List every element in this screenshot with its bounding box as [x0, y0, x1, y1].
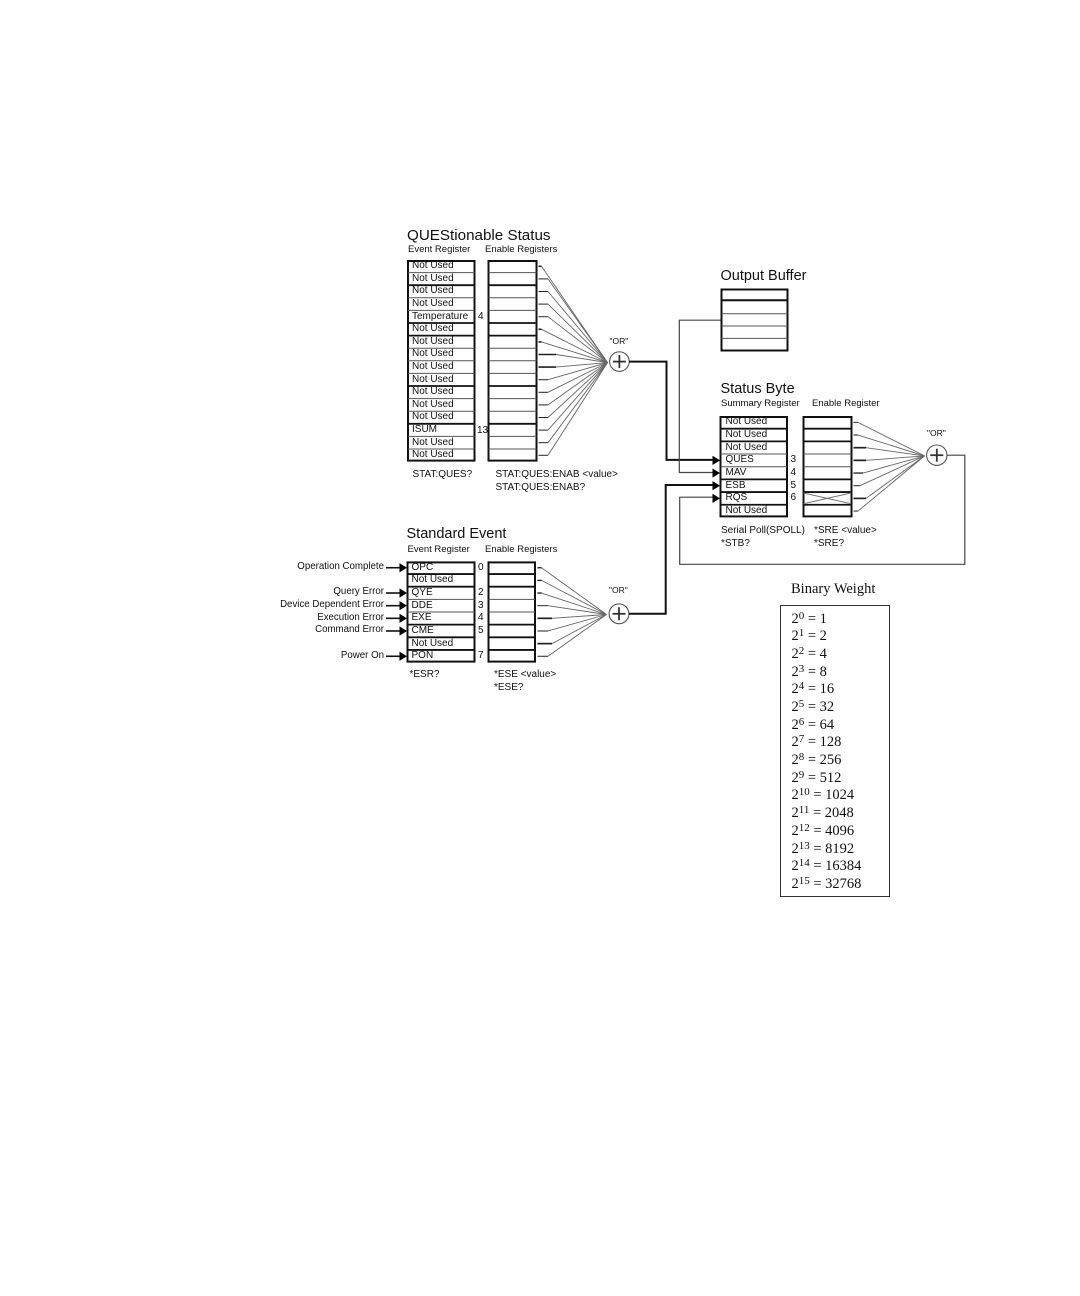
- command label *ESR?: [410, 669, 440, 681]
- input label: Operation Complete: [184, 561, 384, 573]
- arrowhead into Operation Complete bit: [400, 563, 408, 572]
- wire: fan-in line to OR: [548, 363, 608, 431]
- QUEStionable event register grid: [407, 261, 476, 461]
- bit number 4 (Temperature): [478, 311, 484, 323]
- input label: Command Error: [184, 624, 384, 636]
- bit number 7 (Standard Event): [478, 650, 484, 662]
- wire: fan-in line to OR: [548, 292, 608, 363]
- wire: Execution Error input line: [386, 617, 400, 619]
- OR gate (Standard Event): circle with plus: [609, 604, 629, 624]
- wire: fan-in line to OR: [542, 580, 607, 614]
- cell label: QUES event register Not Used: [412, 437, 454, 449]
- input label: Query Error: [184, 586, 384, 598]
- wire: Output Buffer to Status Byte MAV bit: [679, 320, 720, 472]
- wire: fan-in line to OR: [548, 606, 607, 615]
- cell label: QUES event register Not Used: [412, 361, 454, 373]
- wire: enable bit output stub: [539, 291, 549, 293]
- command label *ESE?: [494, 682, 523, 694]
- wire: enable bit output stub: [854, 459, 867, 461]
- cell label: Status Byte summary register Not Used: [726, 429, 768, 441]
- wire: fan-in line to OR: [863, 456, 925, 473]
- cell label: Standard Event event register EXE: [412, 612, 432, 624]
- command label *STB?: [721, 538, 750, 550]
- column header: Enable Register (Status Byte): [812, 398, 880, 410]
- cell label: QUES event register Not Used: [412, 260, 454, 272]
- wire: fan-in line to OR: [548, 304, 608, 363]
- wire: fan-in line to OR: [866, 456, 925, 460]
- wire: enable bit output stub: [539, 454, 549, 456]
- Binary Weight box: [780, 605, 890, 897]
- wire: fan-in line to OR: [542, 342, 608, 363]
- OR gate (QUEStionable): circle with plus: [610, 352, 630, 372]
- Status Byte summary register grid: [720, 417, 789, 516]
- bit number 4 (Standard Event): [478, 612, 484, 624]
- arrowhead into RQS bit: [713, 494, 721, 503]
- wire: enable bit output stub: [854, 434, 859, 436]
- cell label: Status Byte summary register RQS: [726, 492, 748, 504]
- column header: Enable Registers (QUES): [485, 244, 557, 256]
- wire: fan-in line to OR: [548, 615, 607, 631]
- wire: Power On input line: [386, 655, 400, 657]
- section title: Binary Weight (serif): [791, 581, 875, 599]
- Standard Event enable register grid: [488, 562, 537, 661]
- wire: fan-in line to OR: [548, 363, 608, 393]
- arrowhead into Power On bit: [400, 652, 408, 661]
- wire: fan-in line to OR: [552, 615, 607, 644]
- wire: fan-in line to OR: [858, 422, 925, 456]
- section title: Standard Event: [407, 526, 507, 544]
- command label *SRE <value>: [814, 525, 877, 537]
- wire: fan-in line to OR: [866, 448, 925, 456]
- column header: Summary Register: [721, 398, 800, 410]
- cell label: Standard Event event register Not Used: [412, 574, 454, 586]
- cell label: QUES event register Temperature: [412, 311, 468, 323]
- cell label: Standard Event event register CME: [412, 625, 434, 637]
- wire: fan-in line to OR: [556, 363, 608, 368]
- wire: enable bit output stub: [539, 303, 549, 305]
- cell label: Standard Event event register OPC: [412, 562, 434, 574]
- wire: enable bit output stub: [538, 579, 542, 581]
- wire: fan-in line to OR: [542, 329, 608, 362]
- wire: fan-in line to OR: [548, 363, 608, 456]
- label "OR" (QUEStionable): [610, 336, 629, 346]
- wire: enable bit output stub: [538, 592, 542, 594]
- bit number 2 (Standard Event): [478, 587, 484, 599]
- cell label: QUES event register Not Used: [412, 399, 454, 411]
- wire: Standard Event OR output to Status Byte ESB bit: [629, 485, 713, 614]
- wire: enable bit output stub: [539, 404, 549, 406]
- bit number 0 (Standard Event): [478, 562, 484, 574]
- cell label: QUES event register Not Used: [412, 323, 454, 335]
- Binary Weight table text 2^0..2^15: [792, 611, 862, 894]
- label "OR" (Status Byte): [927, 428, 946, 438]
- wire: enable bit output stub: [539, 417, 549, 419]
- cell label: QUES event register Not Used: [412, 298, 454, 310]
- wire: fan-in line to OR: [556, 355, 608, 363]
- command label *SRE?: [814, 538, 844, 550]
- section title: QUEStionable Status: [407, 227, 551, 246]
- cell label: QUES event register Not Used: [412, 386, 454, 398]
- command label *ESE <value>: [494, 669, 556, 681]
- wire: fan-in line to OR: [858, 456, 925, 511]
- wire: enable bit output stub: [539, 328, 542, 330]
- command label STAT:QUES:ENAB?: [496, 482, 586, 494]
- wire: enable bit output stub: [854, 472, 864, 474]
- arrowhead into Query Error bit: [400, 588, 408, 597]
- cell label: Status Byte summary register QUES: [726, 454, 754, 466]
- wire: fan-in line to OR: [548, 363, 608, 443]
- OR gate (Status Byte): circle with plus: [927, 445, 947, 465]
- cell label: Standard Event event register PON: [412, 650, 434, 662]
- wire: enable bit output stub: [539, 429, 549, 431]
- bit number 3 (Standard Event): [478, 600, 484, 612]
- bit number 4 (Status Byte): [791, 467, 797, 479]
- input label: Power On: [184, 650, 384, 662]
- command label STAT:QUES:ENAB <value>: [496, 469, 618, 481]
- wire: enable bit output stub: [538, 643, 553, 645]
- wire: Status Byte OR output feedback to RQS bit: [680, 455, 965, 564]
- bit number 5 (Status Byte): [791, 480, 797, 492]
- wire: fan-in line to OR: [860, 456, 925, 486]
- cell label: Status Byte summary register ESB: [726, 480, 746, 492]
- wire: QUES OR output to Status Byte QUES bit: [629, 362, 712, 460]
- label "OR" (Standard Event): [609, 585, 628, 595]
- wire: enable bit output stub: [539, 442, 549, 444]
- cell label: QUES event register Not Used: [412, 411, 454, 423]
- wire: enable bit output stub: [854, 421, 859, 423]
- wire: enable bit output stub: [539, 354, 557, 356]
- input label: Execution Error: [184, 612, 384, 624]
- cell label: QUES event register Not Used: [412, 374, 454, 386]
- wire: enable bit output stub: [538, 567, 542, 569]
- wire: fan-in line to OR: [548, 363, 608, 380]
- cell label: Status Byte summary register MAV: [726, 467, 747, 479]
- wire: enable bit output stub: [539, 366, 557, 368]
- wire: enable bit output stub: [854, 497, 867, 499]
- wire: Command Error input line: [386, 630, 400, 632]
- arrowhead into MAV bit: [713, 468, 721, 477]
- Output Buffer box: [721, 290, 789, 351]
- input label: Device Dependent Error: [184, 599, 384, 611]
- arrowhead into Device Dependent Error bit: [400, 601, 408, 610]
- wire: fan-in line to OR: [548, 279, 608, 363]
- command label STAT:QUES?: [413, 469, 473, 481]
- wire: fan-in line to OR: [548, 615, 607, 657]
- wire: fan-in line to OR: [542, 593, 607, 614]
- wire: enable bit output stub: [539, 316, 549, 318]
- command label Serial Poll(SPOLL): [721, 525, 805, 537]
- section title: Output Buffer: [721, 268, 807, 286]
- arrowhead into QUES bit: [713, 456, 721, 465]
- bit number 3 (Status Byte): [791, 454, 797, 466]
- column header: Event Register (QUES): [408, 244, 470, 256]
- wire: Query Error input line: [386, 592, 400, 594]
- cell label: Standard Event event register QYE: [412, 587, 433, 599]
- cell label: Status Byte summary register Not Used: [726, 416, 768, 428]
- cell label: QUES event register Not Used: [412, 449, 454, 461]
- Standard Event event register grid: [407, 562, 476, 661]
- cell label: QUES event register ISUM: [412, 424, 437, 436]
- QUEStionable enable register grid: [488, 261, 538, 461]
- wire: fan-in line to OR: [552, 615, 607, 619]
- wire: enable bit output stub: [539, 341, 542, 343]
- wire: enable bit output stub: [539, 278, 549, 280]
- arrowhead into Command Error bit: [400, 626, 408, 635]
- arrowhead into Execution Error bit: [400, 614, 408, 623]
- wire: enable bit output stub: [538, 655, 549, 657]
- bit number 5 (Standard Event): [478, 625, 484, 637]
- wire: enable bit output stub: [539, 391, 549, 393]
- wire: fan-in line to OR: [542, 266, 608, 362]
- cell label: Standard Event event register Not Used: [412, 638, 454, 650]
- wire: fan-in line to OR: [858, 435, 925, 456]
- wire: fan-in line to OR: [866, 456, 925, 498]
- wire: enable bit output stub: [539, 379, 549, 381]
- wire: enable bit output stub: [538, 630, 549, 632]
- column header: Enable Registers (Standard Event): [485, 544, 557, 556]
- cell label: Standard Event event register DDE: [412, 600, 433, 612]
- cell label: Status Byte summary register Not Used: [726, 505, 768, 517]
- RQS enable cell X (not settable): [804, 493, 852, 504]
- wire: fan-in line to OR: [548, 317, 608, 363]
- bit number 6 (Status Byte): [791, 492, 797, 504]
- Status Byte enable register grid: [803, 417, 853, 516]
- cell label: Status Byte summary register Not Used: [726, 442, 768, 454]
- column header: Event Register (Standard Event): [408, 544, 470, 556]
- wire: enable bit output stub: [854, 485, 861, 487]
- wire: fan-in line to OR: [548, 363, 608, 405]
- wire: enable bit output stub: [539, 265, 542, 267]
- section title: Status Byte: [721, 381, 795, 399]
- bit number 13 (ISUM): [477, 425, 488, 437]
- cell label: QUES event register Not Used: [412, 348, 454, 360]
- cell label: QUES event register Not Used: [412, 285, 454, 297]
- cell label: QUES event register Not Used: [412, 336, 454, 348]
- arrowhead into ESB bit: [713, 481, 721, 490]
- cell label: QUES event register Not Used: [412, 273, 454, 285]
- wire: enable bit output stub: [538, 617, 553, 619]
- wire: enable bit output stub: [538, 605, 549, 607]
- wire: fan-in line to OR: [548, 363, 608, 418]
- wire: Device Dependent Error input line: [386, 605, 400, 607]
- wire: enable bit output stub: [854, 447, 867, 449]
- wire: Operation Complete input line: [386, 567, 400, 569]
- wire: fan-in line to OR: [542, 568, 607, 615]
- wire: enable bit output stub: [854, 510, 859, 512]
